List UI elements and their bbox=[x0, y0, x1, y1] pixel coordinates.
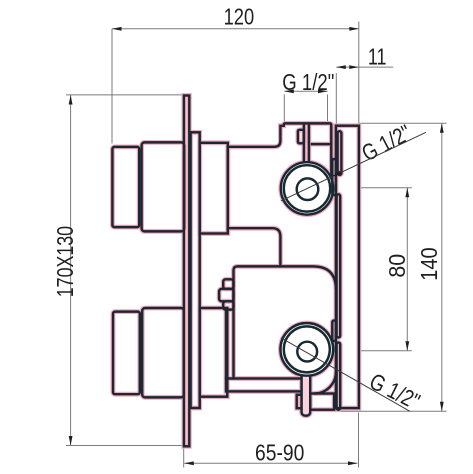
dim 170X130 bottom extension bbox=[66, 445, 184, 447]
arrow 120 left bbox=[112, 27, 122, 31]
arrow 65-90 left bbox=[184, 461, 194, 465]
arrow G1/2 top left bbox=[284, 89, 294, 93]
svg-text:80: 80 bbox=[384, 254, 410, 278]
arrow 11 left bbox=[336, 65, 346, 69]
dim 140 line bbox=[441, 123, 443, 411]
arrow 11 right bbox=[349, 65, 359, 69]
svg-text:G 1/2": G 1/2" bbox=[282, 69, 334, 95]
strip segment 3 fill bbox=[337, 343, 341, 410]
wall plate fill (pink) bbox=[184, 96, 189, 447]
halo layer bbox=[112, 96, 359, 447]
dim 11 line bbox=[336, 66, 393, 68]
arrow G1/2 top right bbox=[318, 89, 328, 93]
svg-text:120: 120 bbox=[224, 4, 255, 30]
svg-text:170X130: 170X130 bbox=[52, 226, 78, 297]
dim G1/2 top left extension bbox=[283, 95, 285, 123]
dim 120 line bbox=[112, 28, 359, 30]
back plate fill (white) bbox=[336, 126, 359, 408]
dim 65-90 left extension bbox=[183, 448, 185, 468]
dim 140 top extension bbox=[359, 122, 447, 124]
dark line layer bbox=[112, 96, 359, 447]
dim 65-90 line bbox=[184, 462, 357, 464]
leader arrow upper bbox=[331, 171, 342, 179]
dim 80 top extension bbox=[338, 187, 412, 189]
arrow 140 bottom bbox=[440, 402, 444, 412]
leader G1/2 upper bbox=[281, 132, 426, 201]
dim G1/2 top right extension bbox=[327, 95, 329, 123]
dim 170X130 line bbox=[70, 95, 72, 446]
strip segment 1 fill bbox=[338, 131, 342, 175]
dim 120/11 right extension bbox=[358, 22, 360, 124]
svg-text:140: 140 bbox=[416, 247, 442, 280]
dim 80 line bbox=[406, 188, 408, 351]
dim 140 bottom extension bbox=[340, 410, 446, 412]
arrow 170X130 bottom bbox=[69, 436, 73, 446]
dim 120 left extension bbox=[111, 29, 113, 144]
strip segment 2 fill bbox=[337, 194, 341, 337]
arrow 80 bottom bbox=[405, 341, 409, 351]
dim 65-90 right extension bbox=[358, 413, 360, 468]
dim 170X130 top extension bbox=[66, 94, 184, 96]
dim G1/2 top line bbox=[284, 90, 327, 92]
arrow 140 top bbox=[440, 123, 444, 133]
svg-text:65-90: 65-90 bbox=[255, 440, 304, 466]
dim 11 left extension bbox=[335, 73, 337, 125]
arrow 170X130 top bbox=[69, 95, 73, 105]
arrow 65-90 right bbox=[348, 461, 358, 465]
dim 80 bottom extension bbox=[341, 350, 412, 352]
leader G1/2 lower bbox=[281, 338, 410, 412]
arrow 120 right bbox=[349, 27, 359, 31]
arrow 80 top bbox=[405, 188, 409, 198]
svg-text:11: 11 bbox=[368, 43, 387, 69]
